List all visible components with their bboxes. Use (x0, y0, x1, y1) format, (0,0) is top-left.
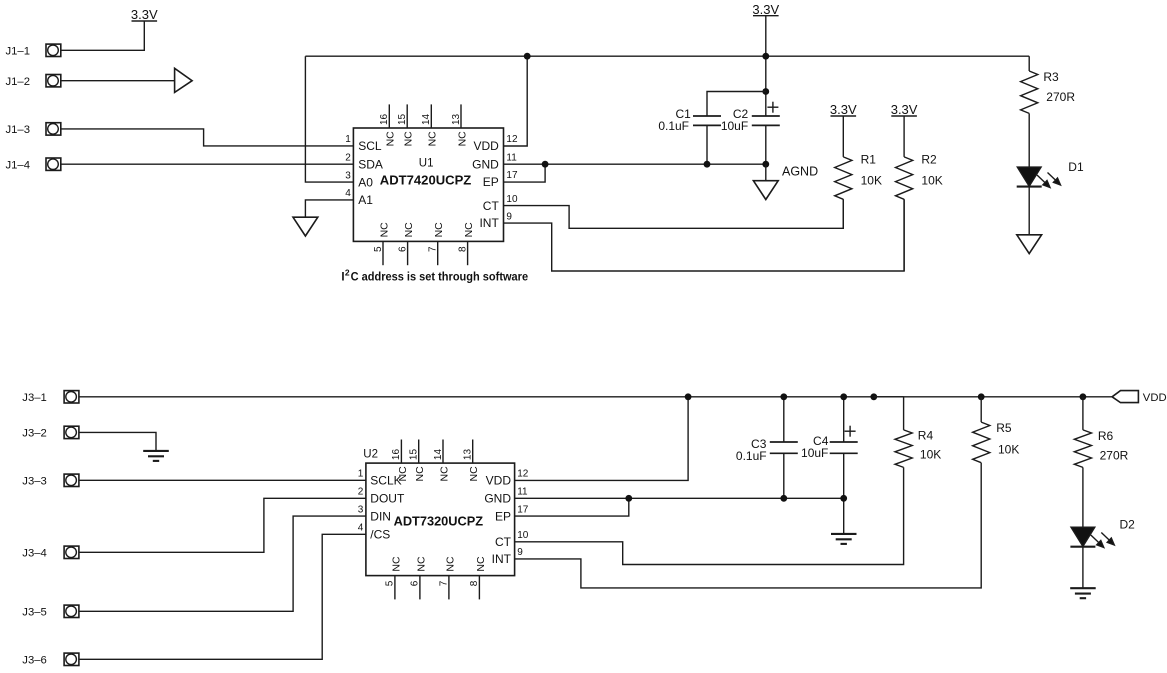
svg-text:13: 13 (463, 449, 474, 461)
svg-text:6: 6 (410, 580, 421, 586)
svg-text:INT: INT (479, 216, 499, 230)
svg-text:VDD: VDD (1143, 392, 1167, 404)
svg-text:EP: EP (495, 509, 511, 523)
svg-text:3.3V: 3.3V (830, 102, 857, 117)
svg-text:U1: U1 (419, 158, 434, 170)
svg-text:270R: 270R (1046, 90, 1075, 104)
svg-text:SDA: SDA (358, 157, 383, 171)
svg-text:2: 2 (358, 487, 364, 498)
svg-text:R6: R6 (1098, 429, 1114, 443)
svg-text:10K: 10K (861, 174, 882, 188)
svg-text:R3: R3 (1043, 70, 1059, 84)
svg-text:NC: NC (414, 466, 426, 482)
svg-text:/CS: /CS (370, 527, 390, 541)
svg-text:U2: U2 (363, 449, 378, 461)
svg-text:ADT7320UCPZ: ADT7320UCPZ (394, 513, 484, 528)
svg-text:J1–2: J1–2 (6, 76, 31, 88)
svg-text:2: 2 (345, 152, 351, 163)
svg-text:7: 7 (439, 580, 450, 586)
svg-text:10uF: 10uF (721, 119, 748, 133)
svg-text:C address is set through softw: C address is set through software (351, 271, 528, 283)
svg-text:CT: CT (483, 199, 500, 213)
svg-text:NC: NC (403, 222, 415, 238)
svg-text:0.1uF: 0.1uF (736, 449, 767, 463)
svg-text:10K: 10K (921, 174, 942, 188)
svg-text:DIN: DIN (370, 509, 391, 523)
svg-text:AGND: AGND (782, 164, 818, 178)
svg-text:SCL: SCL (358, 139, 382, 153)
svg-text:6: 6 (397, 246, 408, 252)
svg-text:NC: NC (390, 556, 402, 572)
svg-text:10: 10 (506, 194, 518, 205)
svg-text:2: 2 (345, 268, 350, 278)
svg-text:J1–1: J1–1 (6, 46, 31, 58)
svg-text:A1: A1 (358, 193, 373, 207)
svg-text:9: 9 (506, 211, 512, 222)
svg-text:NC: NC (385, 131, 397, 147)
svg-text:15: 15 (397, 113, 408, 125)
svg-text:10K: 10K (920, 448, 941, 462)
svg-text:3: 3 (358, 504, 364, 515)
svg-text:CT: CT (495, 535, 512, 549)
svg-text:GND: GND (484, 492, 511, 506)
svg-text:4: 4 (345, 188, 351, 199)
svg-text:16: 16 (391, 449, 402, 461)
svg-text:3.3V: 3.3V (131, 7, 158, 22)
svg-text:R2: R2 (921, 153, 937, 167)
svg-text:10uF: 10uF (801, 446, 828, 460)
svg-text:4: 4 (358, 522, 364, 533)
svg-text:5: 5 (373, 246, 384, 252)
svg-text:12: 12 (517, 469, 529, 480)
svg-text:NC: NC (415, 556, 427, 572)
svg-text:15: 15 (409, 449, 420, 461)
svg-text:J3–2: J3–2 (22, 428, 47, 440)
svg-text:3.3V: 3.3V (752, 2, 779, 17)
svg-text:VDD: VDD (486, 474, 512, 488)
svg-text:NC: NC (427, 131, 439, 147)
svg-text:NC: NC (438, 466, 450, 482)
svg-text:NC: NC (378, 222, 390, 238)
svg-text:INT: INT (492, 552, 512, 566)
svg-text:13: 13 (451, 113, 462, 125)
svg-text:J3–4: J3–4 (22, 548, 47, 560)
svg-text:DOUT: DOUT (370, 492, 405, 506)
svg-text:7: 7 (428, 246, 439, 252)
svg-text:J1–3: J1–3 (6, 124, 31, 136)
svg-text:J3–1: J3–1 (22, 392, 47, 404)
svg-text:1: 1 (358, 469, 364, 480)
svg-text:16: 16 (379, 113, 390, 125)
svg-text:17: 17 (517, 504, 529, 515)
svg-text:3.3V: 3.3V (891, 102, 918, 117)
svg-text:8: 8 (469, 580, 480, 586)
svg-text:J3–6: J3–6 (22, 655, 47, 667)
svg-text:D1: D1 (1068, 160, 1084, 174)
svg-text:EP: EP (483, 175, 499, 189)
svg-text:SCLK: SCLK (370, 474, 401, 488)
svg-text:NC: NC (468, 466, 480, 482)
svg-text:R1: R1 (861, 153, 877, 167)
svg-text:NC: NC (403, 131, 415, 147)
svg-text:10: 10 (517, 530, 529, 541)
svg-text:R5: R5 (996, 421, 1012, 435)
svg-text:3: 3 (345, 170, 351, 181)
svg-text:ADT7420UCPZ: ADT7420UCPZ (380, 173, 472, 188)
svg-text:14: 14 (421, 113, 432, 125)
svg-text:J3–3: J3–3 (22, 476, 47, 488)
svg-text:A0: A0 (358, 175, 373, 189)
svg-text:11: 11 (506, 152, 517, 163)
svg-text:14: 14 (433, 449, 444, 461)
svg-text:NC: NC (475, 556, 487, 572)
svg-text:11: 11 (517, 487, 528, 498)
svg-text:NC: NC (456, 131, 468, 147)
svg-text:GND: GND (472, 157, 499, 171)
svg-text:J3–5: J3–5 (22, 607, 47, 619)
svg-text:10K: 10K (998, 443, 1019, 457)
svg-text:J1–4: J1–4 (6, 159, 31, 171)
svg-text:NC: NC (463, 222, 475, 238)
svg-text:17: 17 (506, 170, 518, 181)
svg-text:R4: R4 (918, 428, 934, 442)
svg-text:VDD: VDD (473, 139, 499, 153)
svg-text:0.1uF: 0.1uF (658, 119, 689, 133)
svg-text:5: 5 (385, 580, 396, 586)
svg-text:12: 12 (506, 134, 518, 145)
svg-text:D2: D2 (1120, 517, 1136, 531)
svg-text:NC: NC (444, 556, 456, 572)
svg-text:270R: 270R (1100, 449, 1129, 463)
svg-text:8: 8 (457, 246, 468, 252)
svg-text:NC: NC (433, 222, 445, 238)
svg-text:9: 9 (517, 547, 523, 558)
svg-text:1: 1 (345, 134, 351, 145)
